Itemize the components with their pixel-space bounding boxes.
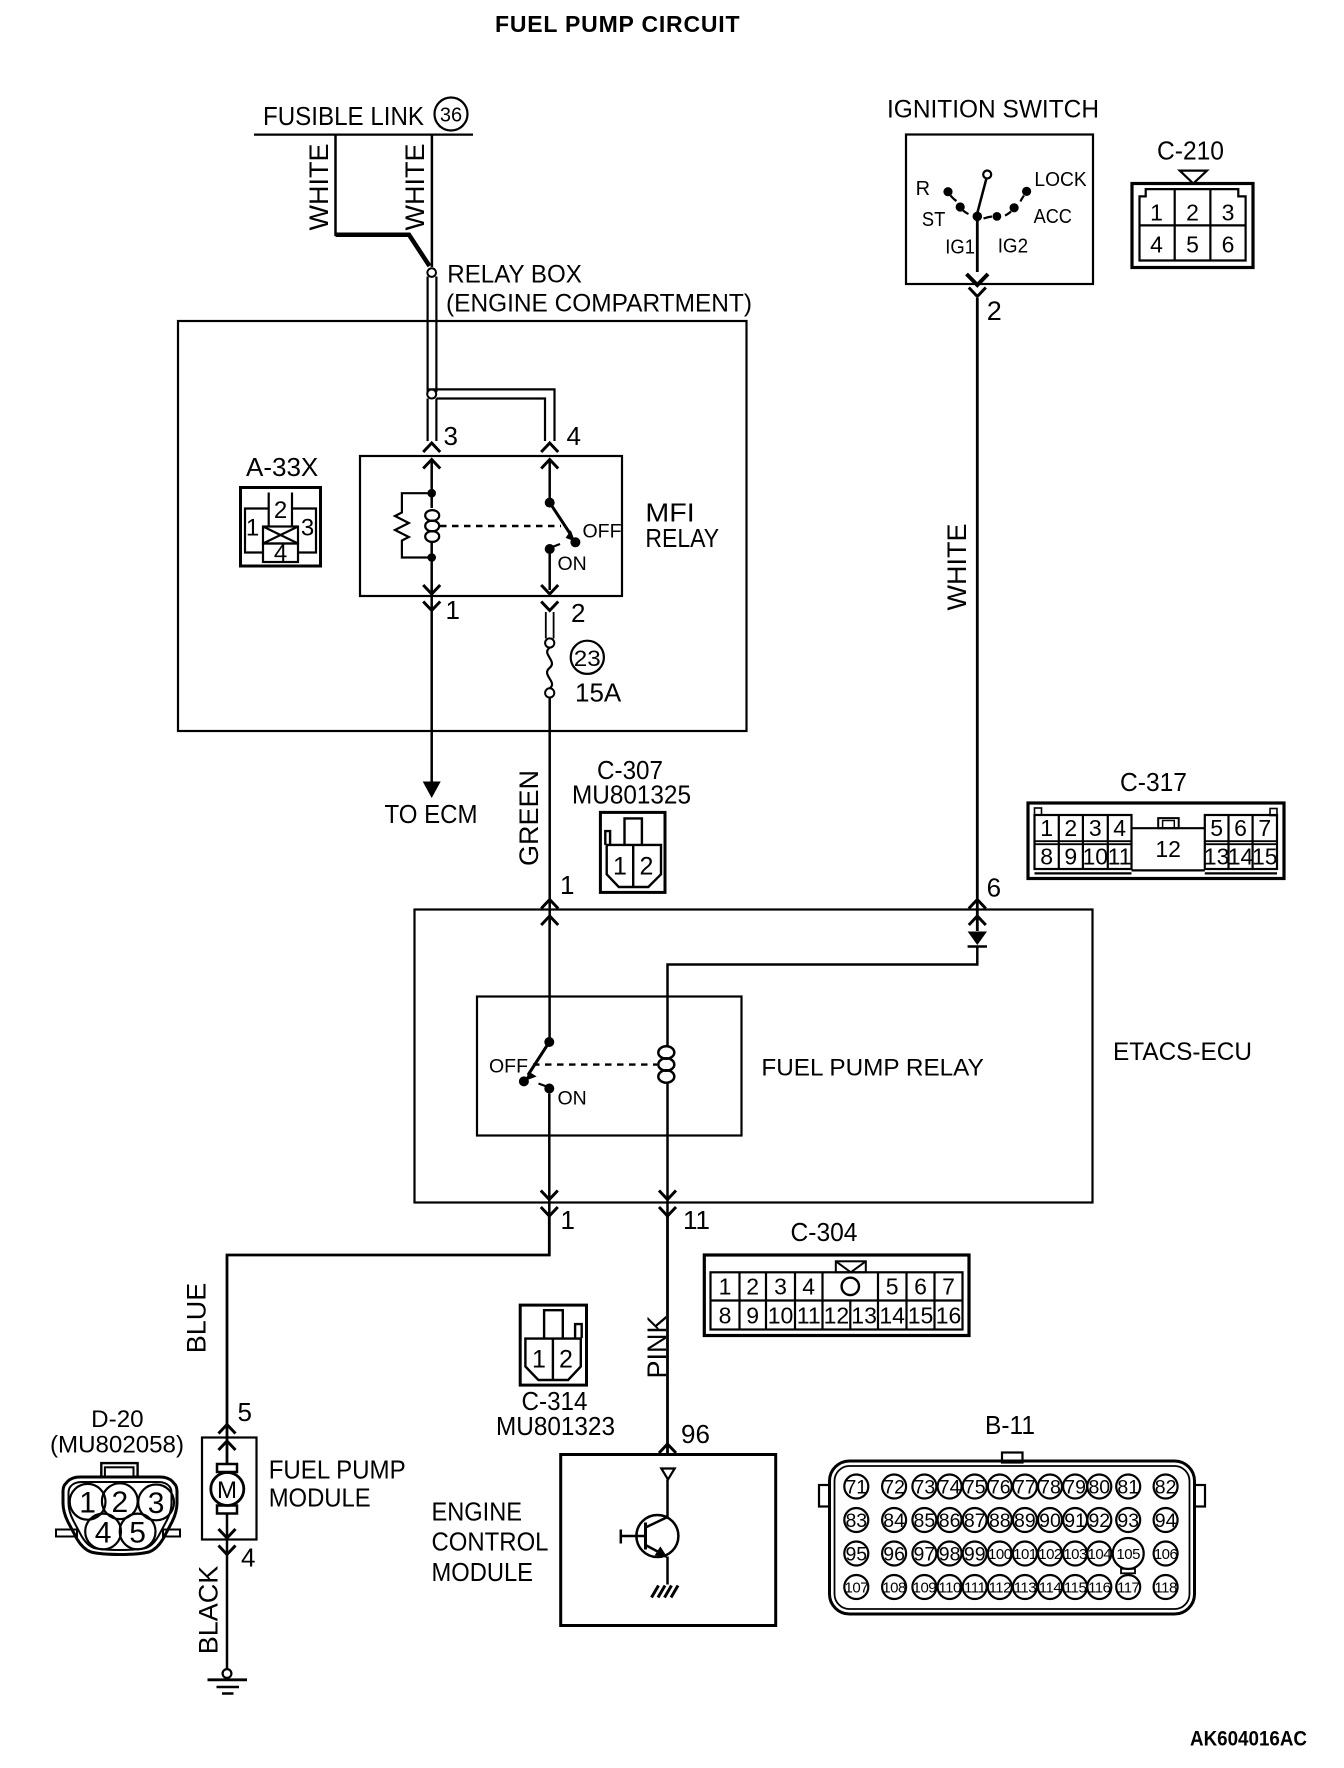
svg-text:82: 82 [1155, 1477, 1177, 1499]
svg-text:4: 4 [274, 540, 287, 567]
svg-text:97: 97 [914, 1544, 936, 1566]
svg-text:FUEL PUMP CIRCUIT: FUEL PUMP CIRCUIT [495, 11, 740, 37]
ignition output wire [976, 221, 979, 272]
svg-text:1: 1 [561, 1205, 575, 1235]
svg-text:3: 3 [1222, 200, 1235, 226]
svg-text:100: 100 [988, 1546, 1012, 1563]
svg-text:CONTROL: CONTROL [432, 1527, 549, 1557]
svg-text:BLACK: BLACK [194, 1566, 224, 1655]
FP switch blade [528, 1042, 549, 1075]
svg-text:71: 71 [845, 1477, 867, 1499]
svg-text:WHITE: WHITE [942, 524, 972, 611]
svg-text:23: 23 [574, 646, 601, 671]
svg-text:2: 2 [559, 1346, 573, 1374]
C-210 connector [1132, 184, 1253, 268]
svg-text:FUEL PUMP RELAY: FUEL PUMP RELAY [761, 1055, 983, 1082]
svg-text:77: 77 [1014, 1477, 1036, 1499]
MFI ON contact [545, 544, 555, 554]
svg-text:GREEN: GREEN [514, 770, 544, 866]
engine control module box [561, 1455, 776, 1626]
fuse double lead [546, 612, 554, 639]
svg-text:15A: 15A [575, 678, 622, 708]
svg-text:(MU802058): (MU802058) [50, 1432, 184, 1459]
svg-text:8: 8 [719, 1303, 732, 1329]
fuse number 23 [571, 641, 604, 674]
ETACS-ECU box [415, 910, 1093, 1203]
svg-text:36: 36 [440, 105, 462, 127]
svg-text:WHITE: WHITE [400, 144, 430, 231]
svg-text:117: 117 [1117, 1579, 1140, 1596]
svg-text:M: M [217, 1477, 237, 1504]
motor return wire [226, 1514, 229, 1670]
svg-text:ST: ST [922, 209, 945, 231]
wire branch double-line to pin 4 [428, 389, 555, 441]
svg-text:96: 96 [883, 1544, 905, 1566]
svg-text:6: 6 [1234, 815, 1247, 841]
contact LOCK [1022, 187, 1031, 196]
svg-text:115: 115 [1064, 1579, 1087, 1596]
svg-text:3: 3 [1089, 815, 1102, 841]
svg-text:74: 74 [939, 1477, 961, 1499]
ground terminal [223, 1669, 232, 1678]
svg-text:73: 73 [914, 1477, 936, 1499]
svg-text:113: 113 [1014, 1579, 1037, 1596]
svg-text:95: 95 [845, 1544, 867, 1566]
svg-text:4: 4 [1150, 232, 1163, 258]
svg-text:72: 72 [883, 1477, 905, 1499]
svg-text:3: 3 [301, 515, 314, 542]
svg-text:102: 102 [1038, 1546, 1062, 1563]
svg-text:1: 1 [246, 515, 259, 542]
MFI switch common wire [548, 461, 551, 498]
transistor Q [636, 1515, 678, 1557]
ignition switch box [906, 135, 1093, 285]
svg-text:C-304: C-304 [791, 1217, 858, 1247]
motor brush cap bottom [217, 1506, 237, 1514]
contact ACC [1010, 203, 1019, 212]
svg-text:2: 2 [274, 497, 287, 524]
fuel pump module arrows top [219, 1425, 236, 1434]
C-317 connector [1028, 803, 1284, 879]
svg-text:AK604016AC: AK604016AC [1190, 1728, 1307, 1751]
svg-text:B-11: B-11 [985, 1410, 1035, 1440]
svg-text:FUSIBLE LINK: FUSIBLE LINK [263, 101, 425, 131]
svg-text:6: 6 [987, 873, 1001, 903]
wire white left thick jog [336, 235, 430, 266]
fuse top terminal [545, 638, 554, 647]
svg-text:112: 112 [989, 1579, 1012, 1596]
svg-text:6: 6 [1222, 232, 1235, 258]
svg-text:12: 12 [824, 1303, 850, 1329]
svg-text:90: 90 [1039, 1510, 1061, 1532]
svg-text:4: 4 [1113, 815, 1126, 841]
FP relay coil [658, 1046, 674, 1058]
C-210 keyway triangle [1180, 171, 1207, 184]
svg-text:96: 96 [681, 1419, 710, 1449]
svg-text:1: 1 [560, 870, 574, 900]
MFI switch blade [550, 503, 571, 535]
svg-text:4: 4 [567, 421, 581, 451]
svg-text:99: 99 [964, 1544, 986, 1566]
wire pin6 into diode [976, 918, 979, 931]
svg-text:1: 1 [613, 853, 627, 881]
ETACS pin 11 arrows [659, 1191, 676, 1200]
svg-text:116: 116 [1088, 1579, 1111, 1596]
MFI pin2 wire [548, 554, 551, 591]
ECM arrow [659, 1444, 676, 1453]
contact IG2 dot [993, 212, 1002, 221]
wire white left drop [334, 135, 337, 236]
MFI coil top node [427, 489, 436, 498]
svg-text:5: 5 [1186, 232, 1199, 258]
motor [211, 1473, 244, 1506]
svg-text:4: 4 [95, 1516, 112, 1549]
svg-text:MODULE: MODULE [269, 1483, 371, 1513]
svg-text:ACC: ACC [1034, 206, 1072, 228]
svg-text:89: 89 [1014, 1510, 1036, 1532]
relay box (engine compartment) outline [178, 321, 747, 731]
B-11 pins 71-118 [844, 1475, 868, 1499]
svg-text:114: 114 [1039, 1579, 1062, 1596]
MFI pin1 wire [430, 561, 433, 783]
svg-text:4: 4 [802, 1274, 815, 1300]
svg-text:TO ECM: TO ECM [385, 799, 478, 829]
C-307 connector [600, 812, 665, 892]
wire double-line continues to pin 3 [427, 399, 429, 442]
svg-text:ON: ON [558, 1088, 587, 1110]
svg-text:85: 85 [914, 1510, 936, 1532]
svg-text:ENGINE: ENGINE [432, 1497, 523, 1527]
svg-text:OFF: OFF [489, 1056, 528, 1078]
ECM ground hatch [652, 1586, 679, 1598]
svg-text:BLUE: BLUE [182, 1283, 212, 1354]
wire white right drop [431, 135, 434, 267]
wire white ignition to ETACS pin 6 [976, 298, 979, 931]
FP switch common wire [548, 920, 551, 1038]
svg-text:2: 2 [640, 853, 654, 881]
svg-text:103: 103 [1063, 1546, 1087, 1563]
FP switch common node [544, 1037, 554, 1047]
svg-text:MU801325: MU801325 [572, 780, 691, 810]
svg-text:87: 87 [964, 1510, 986, 1532]
FP ON contact [544, 1084, 554, 1094]
svg-text:1: 1 [446, 595, 460, 625]
ignition output arrow [967, 274, 989, 285]
svg-text:3: 3 [774, 1274, 787, 1300]
MFI coil bottom node [427, 553, 436, 562]
svg-text:1: 1 [79, 1487, 96, 1520]
B-11 connector shell [819, 1453, 1205, 1615]
svg-text:94: 94 [1155, 1510, 1177, 1532]
svg-text:10: 10 [768, 1303, 794, 1329]
A-33X connector symbol [241, 488, 321, 567]
svg-text:7: 7 [1258, 815, 1271, 841]
pin 1 arrows [541, 900, 558, 909]
ignition lever knob [983, 171, 991, 179]
contact ST [956, 202, 965, 211]
svg-text:98: 98 [939, 1544, 961, 1566]
svg-text:75: 75 [964, 1477, 986, 1499]
fuse bottom terminal [545, 688, 554, 697]
wire to transistor [666, 1480, 669, 1518]
svg-text:6: 6 [914, 1274, 927, 1300]
ETACS pin 1 arrows [541, 1191, 558, 1200]
ignition lever [977, 179, 986, 213]
svg-text:RELAY BOX: RELAY BOX [447, 261, 582, 289]
svg-text:118: 118 [1154, 1579, 1177, 1596]
svg-text:8: 8 [1040, 844, 1053, 870]
svg-text:IGNITION SWITCH: IGNITION SWITCH [887, 96, 1099, 124]
svg-text:WHITE: WHITE [304, 144, 334, 231]
svg-text:4: 4 [241, 1543, 255, 1573]
svg-text:2: 2 [1064, 815, 1077, 841]
svg-text:2: 2 [111, 1486, 128, 1519]
svg-text:ETACS-ECU: ETACS-ECU [1113, 1038, 1252, 1066]
fuel pump module arrows bottom [219, 1529, 236, 1538]
svg-text:PINK: PINK [642, 1315, 672, 1378]
svg-text:11: 11 [1108, 844, 1132, 870]
wire blue ETACS pin1 to fuel pump [227, 1216, 549, 1464]
TO ECM arrow [423, 782, 441, 799]
svg-text:A-33X: A-33X [246, 452, 318, 482]
svg-text:13: 13 [851, 1303, 877, 1329]
svg-text:D-20: D-20 [91, 1406, 143, 1433]
svg-text:C-210: C-210 [1157, 136, 1224, 166]
svg-text:12: 12 [1155, 836, 1181, 862]
D-20 connector [56, 1463, 180, 1554]
svg-text:RELAY: RELAY [645, 523, 719, 553]
svg-text:76: 76 [989, 1477, 1011, 1499]
svg-text:LOCK: LOCK [1034, 169, 1087, 191]
svg-text:106: 106 [1154, 1546, 1178, 1563]
svg-text:110: 110 [938, 1579, 961, 1596]
svg-text:88: 88 [989, 1510, 1011, 1532]
svg-text:92: 92 [1088, 1510, 1110, 1532]
fusible link number 36 [435, 98, 468, 131]
motor brush cap top [217, 1464, 237, 1472]
C-314 connector [520, 1305, 586, 1385]
wire diode to coil [668, 947, 978, 1047]
svg-text:1: 1 [719, 1274, 732, 1300]
svg-text:C-317: C-317 [1120, 767, 1187, 797]
svg-text:9: 9 [1064, 844, 1077, 870]
svg-text:MODULE: MODULE [432, 1557, 534, 1587]
contact R [943, 187, 952, 196]
svg-text:OFF: OFF [583, 521, 622, 543]
svg-text:2: 2 [987, 296, 1002, 326]
svg-text:1: 1 [1040, 815, 1053, 841]
wire pink ETACS pin11 to ECM [666, 1216, 669, 1456]
pin 3 arrows [423, 443, 440, 452]
svg-text:14: 14 [1228, 844, 1254, 870]
MFI relay resistor [395, 493, 432, 557]
svg-text:104: 104 [1088, 1546, 1112, 1563]
emitter wire [666, 1557, 669, 1585]
svg-text:5: 5 [1210, 815, 1223, 841]
svg-text:FUEL PUMP: FUEL PUMP [269, 1455, 406, 1485]
MFI relay dashed link [440, 525, 561, 527]
svg-text:IG2: IG2 [998, 235, 1028, 257]
ground symbol [208, 1678, 248, 1681]
fuel pump relay box [477, 997, 742, 1136]
svg-text:11: 11 [683, 1205, 710, 1235]
double wire from splice to junction [427, 277, 429, 393]
svg-text:7: 7 [942, 1274, 955, 1300]
fusible link bus line [254, 134, 473, 136]
splice node at relay box input [427, 268, 436, 277]
svg-text:86: 86 [939, 1510, 961, 1532]
svg-text:13: 13 [1204, 844, 1230, 870]
svg-text:78: 78 [1039, 1477, 1061, 1499]
svg-text:83: 83 [845, 1510, 867, 1532]
MFI coil top wire [430, 461, 433, 491]
MFI switch common node [545, 498, 555, 508]
svg-text:84: 84 [883, 1510, 905, 1532]
svg-text:91: 91 [1064, 1510, 1086, 1532]
pin 6 arrows [969, 900, 986, 909]
svg-text:15: 15 [908, 1303, 934, 1329]
svg-text:14: 14 [879, 1303, 905, 1329]
ECM signal triangle [661, 1469, 674, 1480]
svg-text:5: 5 [129, 1516, 146, 1549]
svg-text:2: 2 [746, 1274, 759, 1300]
svg-text:2: 2 [571, 598, 585, 628]
svg-text:81: 81 [1117, 1477, 1139, 1499]
MFI relay coil [430, 493, 433, 508]
svg-text:10: 10 [1083, 844, 1109, 870]
svg-text:3: 3 [148, 1487, 165, 1520]
FP relay dashed link [533, 1063, 657, 1065]
svg-text:109: 109 [913, 1579, 937, 1596]
svg-text:101: 101 [1013, 1546, 1037, 1563]
svg-text:107: 107 [845, 1579, 869, 1596]
svg-text:(ENGINE COMPARTMENT): (ENGINE COMPARTMENT) [446, 290, 752, 318]
svg-text:105: 105 [1116, 1546, 1140, 1563]
FP pin1 wire [548, 1094, 551, 1219]
FP OFF contact [519, 1076, 529, 1086]
svg-text:5: 5 [238, 1397, 252, 1427]
MFI OFF contact [570, 537, 580, 547]
fuel pump module box [202, 1438, 257, 1540]
svg-text:93: 93 [1117, 1510, 1139, 1532]
svg-text:108: 108 [882, 1579, 906, 1596]
MFI relay box [360, 456, 622, 596]
svg-text:1: 1 [1150, 200, 1163, 226]
fuse element [547, 648, 552, 689]
ignition pivot [973, 212, 983, 222]
svg-text:2: 2 [1186, 200, 1199, 226]
diode [968, 932, 987, 946]
svg-text:80: 80 [1088, 1477, 1110, 1499]
svg-text:15: 15 [1252, 844, 1278, 870]
svg-text:MU801323: MU801323 [496, 1411, 615, 1441]
svg-text:ON: ON [558, 553, 587, 575]
svg-text:1: 1 [532, 1346, 546, 1374]
svg-text:16: 16 [936, 1303, 962, 1329]
svg-text:R: R [916, 178, 930, 200]
svg-text:79: 79 [1064, 1477, 1086, 1499]
svg-text:9: 9 [746, 1303, 759, 1329]
svg-text:11: 11 [797, 1303, 821, 1329]
svg-text:111: 111 [964, 1579, 985, 1596]
svg-text:5: 5 [886, 1274, 899, 1300]
junction node [427, 390, 436, 399]
C-304 connector [704, 1255, 969, 1336]
pin 4 arrows [541, 443, 558, 452]
wire green fuse to ETACS pin 1 [548, 698, 551, 926]
svg-text:3: 3 [444, 421, 458, 451]
svg-text:IG1: IG1 [945, 236, 975, 258]
